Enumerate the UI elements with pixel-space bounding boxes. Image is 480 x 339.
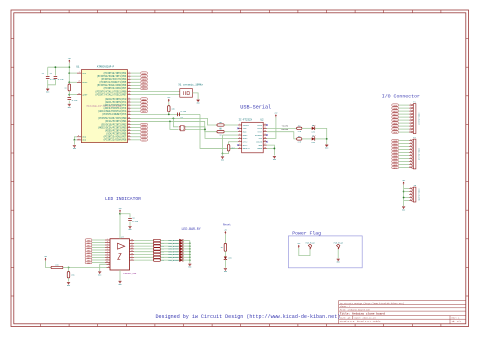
no-connect U2 pin 7 — [237, 144, 239, 146]
MCU pin 14 stub — [128, 113, 131, 115]
svg-text:3: 3 — [129, 78, 130, 80]
svg-text:X1 ceramic_16MHz: X1 ceramic_16MHz — [178, 83, 203, 87]
connector P3 body — [413, 187, 416, 202]
svg-text:4: 4 — [410, 196, 411, 198]
capacitor C3 AREF — [68, 98, 78, 102]
wire MCU AD1 — [131, 101, 140, 103]
wire U3 out row 4 — [134, 251, 153, 253]
crystal X1 — [180, 89, 193, 98]
svg-text:16: 16 — [131, 244, 133, 246]
P1 pin 1 pad — [412, 104, 413, 105]
U3 right pin 17 — [130, 242, 135, 244]
junction led bus 4 — [189, 251, 191, 253]
svg-text:USB-Serial: USB-Serial — [240, 105, 271, 111]
global label IO6 at U3 — [85, 254, 92, 257]
wire +5V rail MCU — [68, 63, 70, 84]
wire U3 gnd pin — [119, 270, 121, 280]
U3 left pin 4 — [105, 243, 110, 245]
wire button d — [185, 128, 205, 130]
U2 right pin 27 — [263, 143, 267, 145]
ground U2 left — [221, 157, 224, 162]
connector P2 body — [413, 139, 416, 169]
svg-text:+5V: +5V — [44, 256, 47, 258]
svg-text:CONN_01X10: CONN_01X10 — [418, 113, 421, 126]
global label IO12 — [141, 84, 148, 87]
svg-text:GND: GND — [221, 159, 224, 161]
resistor RN 4 — [153, 251, 160, 253]
svg-text:25: 25 — [264, 137, 266, 139]
MCU pin 6 stub — [128, 87, 131, 89]
wire led gnd bus — [189, 241, 191, 264]
U3 left pin 10 — [105, 258, 110, 260]
power +5V at MCU — [68, 58, 71, 63]
ground C9 — [128, 227, 131, 232]
global label IO1 — [392, 142, 399, 145]
svg-text:13: 13 — [131, 253, 133, 255]
P3 pin 2 stub — [409, 190, 412, 192]
P3 pin 3 stub — [409, 193, 412, 195]
wire R to LED row 6 — [161, 256, 180, 258]
junction U3 vcc branch — [119, 213, 121, 215]
wire P1 pin 1 — [399, 104, 410, 106]
global label IO5 — [392, 154, 399, 157]
ground U3 enable — [98, 272, 101, 277]
power flag PWR_FLAG right — [334, 242, 344, 250]
P3 pin 5 pad — [412, 200, 413, 201]
junction VCC — [68, 72, 70, 74]
P3 pin 1 pad — [412, 188, 413, 189]
wire LED to bus row 5 — [182, 254, 189, 256]
svg-text:GND: GND — [68, 107, 71, 109]
svg-text:9: 9 — [410, 163, 411, 165]
svg-text:4K7: 4K7 — [231, 147, 234, 150]
global label IO8 — [392, 104, 399, 107]
junction P3 gnd — [403, 197, 405, 199]
wire P2 pin 7 — [399, 158, 410, 160]
svg-text:Size: A3: Size: A3 — [340, 317, 351, 320]
resistor RN 6 — [153, 256, 160, 258]
global label AD2 — [141, 104, 148, 107]
junction led bus 7 — [189, 259, 191, 261]
global label IO13 — [392, 119, 399, 122]
svg-text:LED: LED — [311, 141, 315, 144]
wire P1 pin 3 — [399, 110, 410, 112]
wire IO2 to U3 — [92, 244, 105, 246]
power +5V at U2 — [274, 113, 277, 118]
global label IO1 at U3 — [85, 241, 92, 244]
MCU U1 body — [81, 70, 127, 143]
svg-text:1: 1 — [108, 266, 109, 268]
svg-text:7: 7 — [410, 121, 411, 123]
wire U2 gnd b — [267, 147, 275, 149]
power +5V reset pullup — [167, 97, 170, 102]
svg-text:+5V: +5V — [297, 243, 300, 245]
svg-text:PWR_FLAG: PWR_FLAG — [334, 242, 344, 245]
wire XTAL1 — [131, 91, 180, 93]
svg-text:7: 7 — [239, 143, 240, 145]
P1 pin 2 stub — [409, 106, 412, 108]
global label IO3 — [392, 148, 399, 151]
MCU pin 11 stub — [128, 103, 131, 105]
wire LED to bus row 1 — [182, 242, 189, 244]
wire P3 pin5 — [404, 200, 410, 202]
global label IO2 at U3 — [85, 244, 92, 247]
P2 pin 4 pad — [412, 149, 413, 150]
MCU pin 20 stub — [128, 132, 131, 134]
wire pwr flag right — [337, 249, 339, 258]
wire IO4 to U3 — [92, 249, 105, 251]
global label IO10 — [141, 78, 148, 81]
wire P1 pin 8 — [399, 125, 410, 127]
wire U3 out row 3 — [134, 248, 153, 250]
U2 right pin 26 — [263, 140, 267, 142]
wire U2 gnd a — [267, 145, 275, 155]
P1 pin 2 pad — [412, 107, 413, 108]
ground P3 — [402, 207, 405, 212]
connector P1 body — [413, 104, 416, 134]
MCU pin 21 AREF stub — [77, 93, 81, 95]
P2 pin 3 stub — [409, 145, 412, 147]
global label IO8 — [141, 72, 148, 75]
P1 pin 6 pad — [412, 119, 413, 120]
wire RESET net — [131, 113, 200, 115]
wire R7 top to U2 — [229, 142, 238, 145]
LED D4 TX — [311, 124, 315, 134]
U2 left pin 6 — [238, 140, 242, 142]
svg-text:LED: LED — [228, 257, 232, 260]
wire R to LED row 1 — [161, 242, 180, 244]
wire LED to bus row 3 — [182, 248, 189, 250]
svg-text:5: 5 — [129, 84, 130, 86]
wire P2 pin 9 — [399, 164, 410, 166]
svg-text:20: 20 — [78, 81, 80, 83]
P1 pin 10 stub — [409, 130, 412, 132]
svg-text:File: arduino_board.sch: File: arduino_board.sch — [340, 308, 371, 311]
svg-text:21: 21 — [78, 93, 80, 95]
junction AVCC — [68, 81, 70, 83]
global label IO4 at U3 — [85, 249, 92, 252]
svg-text:2: 2 — [129, 75, 130, 77]
wire AVCC to MCU — [69, 81, 77, 83]
svg-text:+5V: +5V — [68, 58, 71, 60]
svg-text:7: 7 — [410, 157, 411, 159]
svg-text:7: 7 — [129, 90, 130, 92]
wire MCU IO10 — [131, 78, 140, 80]
global label AD4 — [141, 110, 148, 113]
ground AREF cap — [68, 104, 71, 109]
global label GND — [392, 122, 399, 125]
junction reset pullup — [168, 113, 170, 115]
svg-text:LED: LED — [311, 130, 315, 133]
svg-text:D4: D4 — [312, 124, 315, 127]
U3 pin 19 stub — [107, 263, 111, 265]
wire MCU AD4 — [131, 110, 140, 112]
wire reset led a — [224, 234, 226, 243]
P2 pin 1 stub — [409, 139, 412, 141]
wire +5V to U2 VCC — [267, 117, 276, 138]
svg-text:AVCC: AVCC — [82, 81, 88, 84]
svg-text:GND: GND — [337, 262, 340, 264]
svg-text:3: 3 — [107, 241, 108, 243]
P1 pin 6 stub — [409, 118, 412, 120]
P1 pin 4 pad — [412, 113, 413, 114]
svg-text:Reset: Reset — [223, 224, 231, 227]
no-connect U2 pin 26 — [266, 141, 268, 143]
U3 left pin 3 — [105, 241, 110, 243]
global label IO2 — [392, 145, 399, 148]
wire IO8 to U3 — [92, 259, 105, 261]
svg-text:10: 10 — [128, 100, 130, 102]
U2 right pin 25 — [263, 137, 267, 139]
global label IO4 — [141, 129, 148, 132]
svg-text:12: 12 — [131, 256, 133, 258]
svg-text:6: 6 — [107, 248, 108, 250]
global label AD0 — [141, 98, 148, 101]
wire IO7 to U3 — [92, 257, 105, 259]
wire MCU AD2 — [131, 104, 140, 106]
wire MCU AD3 — [131, 107, 140, 109]
U3 left pin 2 — [105, 238, 110, 240]
wire P2 pin 8 — [399, 161, 410, 163]
wire MCU IO8 — [131, 72, 140, 74]
wire button c — [185, 127, 238, 139]
global label IO6 — [141, 136, 148, 139]
svg-text:+5V: +5V — [224, 229, 227, 231]
global label AREF — [392, 125, 399, 128]
wire TXD — [131, 118, 217, 125]
wire button a — [173, 118, 178, 126]
svg-text:U3: U3 — [121, 235, 124, 238]
wire C3 to ground — [68, 101, 70, 104]
P1 pin 1 stub — [409, 103, 412, 105]
wire R12 to ground — [68, 278, 70, 282]
junction led gnd bus — [326, 138, 328, 140]
P2 pin 2 pad — [412, 143, 413, 144]
wire U3 out row 7 — [134, 259, 153, 261]
svg-text:11: 11 — [106, 261, 108, 263]
ground at X1 — [197, 100, 200, 105]
IC U3 buffer symbol — [118, 243, 125, 259]
svg-text:GND: GND — [224, 271, 227, 273]
svg-text:9: 9 — [129, 97, 130, 99]
resistor R11 — [51, 264, 63, 269]
svg-text:10: 10 — [409, 166, 411, 168]
junction RXD button — [169, 121, 171, 123]
wire reset to FT232 — [200, 114, 238, 148]
wire MCU IO5 — [131, 133, 140, 135]
svg-text:6: 6 — [410, 118, 411, 120]
P1 pin 5 stub — [409, 115, 412, 117]
svg-text:27: 27 — [264, 143, 266, 145]
svg-text:Title: Arduino clone board: Title: Arduino clone board — [340, 312, 385, 316]
P2 pin 6 pad — [412, 155, 413, 156]
wire reset led b — [224, 251, 226, 256]
svg-text:10K: 10K — [171, 108, 175, 111]
svg-text:18: 18 — [131, 239, 133, 241]
wire to C1 — [47, 67, 49, 75]
P3 pin 4 pad — [412, 197, 413, 198]
resistor R8 — [297, 124, 302, 133]
svg-text:17: 17 — [128, 123, 130, 125]
wire MCU IO3 — [131, 127, 140, 129]
junction led bus 1 — [189, 242, 191, 244]
wire P2 pin 1 — [399, 140, 410, 142]
P2 pin 8 pad — [412, 161, 413, 162]
global label AD1 — [392, 166, 399, 169]
svg-text:8: 8 — [78, 135, 79, 137]
wire R9 to D5 — [302, 138, 312, 140]
svg-text:6: 6 — [410, 154, 411, 156]
power +5V at P3 — [402, 180, 405, 185]
wire R8 to D4 — [302, 127, 312, 129]
U3 pin 1 stub — [107, 266, 111, 268]
svg-text:C1: C1 — [42, 72, 45, 75]
svg-text:(PCINT14/RESET)PC6: (PCINT14/RESET)PC6 — [102, 113, 127, 116]
U2 right pin 28 — [263, 147, 267, 149]
capacitor C1 — [46, 77, 56, 81]
svg-text:GND: GND — [98, 274, 101, 276]
resistor RN 2 — [153, 245, 160, 247]
LED bar segment 5 — [179, 253, 183, 256]
wire P1 pin 6 — [399, 119, 410, 121]
global label IO3 at U3 — [85, 246, 92, 249]
global label IO9 — [392, 107, 399, 110]
MCU pin 17 stub — [128, 123, 131, 125]
ground U2 right — [273, 156, 276, 161]
svg-text:Date: 2016-11-13: Date: 2016-11-13 — [355, 317, 377, 320]
global label IO4 — [392, 151, 399, 154]
svg-text:3: 3 — [410, 145, 411, 147]
wire MCU IO2 — [131, 124, 140, 126]
svg-text:GND: GND — [67, 285, 70, 287]
wire MCU IO11 — [131, 81, 140, 83]
MCU pin 18 stub — [128, 126, 131, 128]
resistor R5 — [217, 121, 224, 130]
global label IO13 — [141, 87, 148, 90]
P3 pin 2 pad — [412, 191, 413, 192]
LED D5 RX — [311, 134, 315, 144]
no-connect U2 pin 24 — [266, 134, 268, 136]
global label IO12 — [392, 116, 399, 119]
global label IO5 — [141, 132, 148, 135]
MCU pin 13 stub — [128, 110, 131, 112]
MCU pin 22 GND stub — [77, 138, 81, 140]
resistor RN 1 — [153, 242, 160, 244]
svg-text:+5V: +5V — [118, 208, 121, 210]
wire R5 to U2 — [224, 124, 238, 126]
wire LED to bus row 0 — [182, 240, 189, 242]
global label IO11 — [392, 113, 399, 116]
global label IO11 — [141, 81, 148, 84]
svg-text:P1: P1 — [413, 101, 416, 104]
U3 left pin 8 — [105, 253, 110, 255]
U3 right pin 18 — [130, 239, 135, 241]
svg-text:GND: GND — [273, 159, 276, 161]
LED bar segment 1 — [179, 242, 183, 245]
LED bar segment 2 — [179, 245, 183, 248]
P1 pin 7 stub — [409, 121, 412, 123]
wire IO1 to U3 — [92, 242, 105, 244]
wire P2 pin 3 — [399, 146, 410, 148]
svg-text:U1: U1 — [76, 65, 80, 68]
global label AD1 — [141, 101, 148, 104]
svg-text:GND: GND — [73, 148, 76, 150]
wire R11 to junction — [63, 267, 69, 269]
P3 pin 5 stub — [409, 199, 412, 201]
U2 left pin 4 — [238, 133, 242, 135]
U2 right pin 22 — [263, 127, 267, 129]
svg-text:RESET#: RESET# — [243, 147, 251, 150]
P2 pin 6 stub — [409, 154, 412, 156]
svg-text:17: 17 — [131, 242, 133, 244]
junction TXD button — [173, 118, 175, 120]
svg-text:8: 8 — [129, 93, 130, 95]
svg-text:20: 20 — [128, 132, 130, 134]
svg-text:CONN_01X10: CONN_01X10 — [418, 148, 421, 161]
wire +5V to R11 — [46, 261, 52, 268]
P2 pin 10 stub — [409, 166, 412, 168]
wire gnd node down — [222, 154, 224, 157]
LED bar segment 4 — [179, 250, 183, 253]
resistor R9 — [297, 135, 302, 144]
U3 right pin 11 — [130, 258, 135, 260]
svg-text:GND: GND — [325, 148, 328, 150]
svg-text:1: 1 — [410, 103, 411, 105]
global label IO6 — [392, 157, 399, 160]
P1 pin 10 pad — [412, 131, 413, 132]
svg-text:22: 22 — [78, 138, 80, 140]
global label AD0 — [392, 163, 399, 166]
junction led bus 6 — [189, 256, 191, 258]
wire LED to bus row 4 — [182, 251, 189, 253]
ground MCU — [73, 146, 76, 151]
resistor R12 — [67, 272, 75, 279]
MCU pin 9 stub — [128, 97, 131, 99]
junction led bus 2 — [189, 245, 191, 247]
svg-text:14: 14 — [128, 113, 130, 115]
svg-text:LED INDICATOR: LED INDICATOR — [105, 196, 141, 202]
svg-text:8: 8 — [410, 160, 411, 162]
svg-text:4: 4 — [410, 112, 411, 114]
wire P3 pin2 — [404, 191, 410, 193]
MCU pin 4 stub — [128, 81, 131, 83]
wire U3 out row 1 — [134, 242, 153, 244]
svg-text:CONN_01X05: CONN_01X05 — [418, 188, 421, 201]
global label IO0 — [392, 139, 399, 142]
resistor RN 3 — [153, 248, 160, 250]
wire P1 pin 7 — [399, 122, 410, 124]
wire R to LED row 4 — [161, 251, 180, 253]
P1 pin 9 pad — [412, 128, 413, 129]
U3 right pin 13 — [130, 253, 135, 255]
wire IO9 to U3 — [92, 262, 105, 264]
resistor R2 pullup — [168, 106, 176, 112]
wire P1 pin 10 — [399, 131, 410, 133]
wire XTAL2 — [131, 94, 180, 96]
svg-text:9: 9 — [107, 256, 108, 258]
U2 left pin 3 — [238, 130, 242, 132]
global label IO7 — [141, 139, 148, 142]
ground pwr flag — [337, 259, 340, 264]
wire enable net — [69, 267, 107, 269]
resistor RN 5 — [153, 253, 160, 255]
svg-text:+5V: +5V — [402, 180, 405, 182]
junction led bus 5 — [189, 254, 191, 256]
svg-text:(PCINT7/XTAL2/TOSC2)PB7: (PCINT7/XTAL2/TOSC2)PB7 — [95, 93, 127, 96]
U2 right pin 24 — [263, 133, 267, 135]
svg-text:3: 3 — [410, 109, 411, 111]
LED bar segment 3 — [179, 247, 183, 250]
